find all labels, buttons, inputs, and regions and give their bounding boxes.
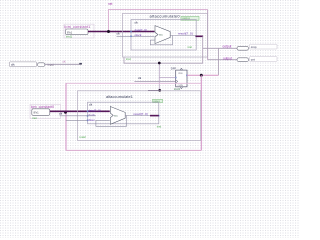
junction node A on data bus: [107, 30, 110, 33]
wire adder output: [170, 35, 196, 37]
wire bus result altaccumulate1: [150, 115, 159, 117]
output pin cmp: [223, 44, 278, 50]
svg-text:8'h1: 8'h1: [34, 110, 40, 114]
pin clock edge mark: [176, 80, 178, 83]
svg-text:UNSI 8: UNSI 8: [182, 17, 190, 20]
accumulator altaccumulate1 inst2: [78, 91, 201, 141]
output pin cnt: [223, 56, 277, 61]
wire stub on block top edge: [148, 90, 160, 92]
port pad result: [158, 115, 160, 117]
wire feedback loop left: [65, 83, 67, 150]
svg-text:inst: inst: [157, 125, 162, 129]
svg-text:cnt: cnt: [251, 57, 255, 61]
port pad D: [175, 77, 177, 79]
wire register feedback loop: [96, 116, 127, 127]
junction node C: [158, 62, 161, 65]
svg-text:result[7..0]: result[7..0]: [134, 112, 148, 116]
wire clk from input pin: [45, 63, 82, 65]
wire clock stub: [117, 35, 155, 37]
svg-text:altaccumulate1: altaccumulate1: [106, 95, 133, 99]
wire register feedback loop: [150, 36, 172, 45]
svg-text:inst: inst: [126, 57, 131, 61]
svg-text:clock: clock: [88, 113, 95, 117]
svg-text:altaccumulate0: altaccumulate0: [150, 13, 181, 18]
port pad data: [130, 31, 132, 33]
svg-text:clk: clk: [11, 63, 15, 67]
svg-text:cmp: cmp: [251, 45, 257, 49]
svg-text:output: output: [223, 45, 232, 49]
port pad Q: [186, 75, 188, 77]
svg-text:lpm_constant1: lpm_constant1: [65, 25, 91, 29]
port pad data: [87, 111, 89, 113]
wire adder output: [125, 115, 150, 117]
svg-text:output: output: [223, 56, 232, 60]
constant lpm_constant0 inst: [30, 104, 61, 120]
wire clk end tick: [79, 63, 82, 65]
svg-text:result[7..0]: result[7..0]: [178, 31, 193, 35]
wire dff D input: [159, 77, 175, 79]
input pin clk: [10, 62, 55, 67]
wire bus lpm_constant0 result to data: [50, 110, 110, 112]
svg-text:clken: clken: [88, 118, 95, 122]
port pad clock: [87, 115, 89, 117]
wire feedback loop top: [66, 82, 201, 84]
svg-text:inst2: inst2: [80, 135, 87, 139]
port pad clock: [130, 36, 132, 38]
adder symbol: [110, 107, 125, 125]
svg-text:data[7..0]: data[7..0]: [88, 109, 101, 113]
wire result tap down and left: [124, 36, 203, 63]
adder symbol: [155, 26, 170, 44]
svg-text:PRN: PRN: [178, 73, 183, 75]
wire dff clock stub: [134, 80, 175, 82]
wire feedback loop right: [200, 75, 202, 150]
wire selected net right drop to cnt: [207, 10, 209, 60]
port pad result: [195, 36, 197, 38]
wire vertical tap to dff: [158, 63, 160, 90]
wire clken stub: [66, 119, 88, 121]
accumulator altaccumulate0 inst: [117, 13, 208, 61]
wire bus result altaccumulate0: [196, 35, 204, 37]
port pad clken: [87, 120, 89, 122]
wire to output cmp: [203, 47, 237, 49]
junction node E on data bus: [64, 111, 67, 114]
junction node D: [158, 89, 161, 92]
constant lpm_constant1 inst1: [64, 24, 94, 38]
wire clock stub bottom: [60, 115, 96, 117]
svg-text:net: net: [108, 2, 113, 6]
svg-text:inst: inst: [32, 116, 37, 120]
junction node B: [200, 74, 203, 77]
wire bus lpm_constant1 result to data: [88, 31, 155, 33]
wire to output cnt: [208, 59, 237, 61]
wire vertical cmp branch to dff q: [218, 48, 220, 75]
wire dff Q output: [187, 74, 219, 76]
wire feedback loop bottom: [66, 149, 201, 151]
wire selected net top run: [109, 10, 208, 32]
pin PRN: [180, 68, 182, 70]
svg-text:data[7..0]: data[7..0]: [135, 28, 147, 32]
svg-text:inst1: inst1: [66, 35, 72, 39]
svg-text:inst: inst: [188, 45, 193, 49]
flip-flop DFF inst3: [171, 67, 188, 92]
